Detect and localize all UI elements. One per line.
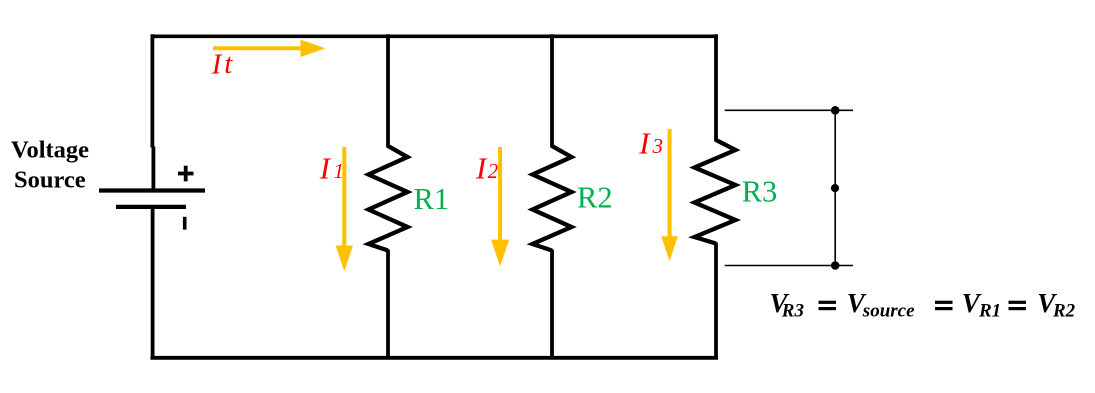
- svg-text:I: I: [475, 151, 488, 186]
- wire bottom rail: [151, 356, 719, 360]
- svg-text:R1: R1: [414, 182, 450, 216]
- svg-text:3: 3: [652, 134, 664, 158]
- wire R3 bottom lead: [714, 243, 718, 360]
- label current I3: [638, 125, 663, 160]
- label resistor R2 value: [577, 181, 613, 215]
- node middle junction dot: [831, 184, 839, 192]
- wire top rail: [151, 34, 719, 38]
- svg-text:R2: R2: [577, 181, 613, 215]
- svg-text:Voltage: Voltage: [11, 136, 89, 163]
- label Voltage Source: [11, 136, 89, 193]
- wire voltmeter top horizontal thin line: [725, 109, 853, 111]
- current arrow I1 (downward): [336, 147, 353, 271]
- wire left rail upper segment: [152, 34, 153, 190]
- svg-text:I: I: [211, 48, 223, 80]
- wire R3 top lead (right rail): [714, 34, 718, 141]
- svg-text:t: t: [224, 48, 233, 80]
- battery plus polarity symbol: [178, 166, 194, 182]
- svg-text:Source: Source: [14, 167, 86, 194]
- current arrow It (total current, rightward): [213, 40, 326, 57]
- svg-text:I: I: [638, 125, 651, 160]
- wire voltmeter bottom horizontal thin line: [725, 265, 853, 267]
- label resistor R1 value: [414, 182, 450, 216]
- resistor R1 zigzag: [369, 146, 408, 251]
- node top junction dot: [831, 106, 840, 115]
- equation VR3 = Vsource = VR1 = VR2: [770, 288, 1076, 322]
- wire R2 top lead: [550, 34, 554, 147]
- wire R1 top lead: [386, 34, 390, 147]
- node bottom junction dot: [831, 261, 840, 270]
- svg-text:source: source: [862, 301, 915, 322]
- resistor R3 zigzag: [695, 140, 736, 244]
- label resistor R3 value: [742, 175, 778, 209]
- label current I2: [475, 151, 499, 186]
- wire voltmeter vertical thin line: [834, 110, 836, 265]
- wire R2 bottom lead: [550, 250, 554, 360]
- label current It: [211, 48, 234, 80]
- svg-text:I: I: [319, 151, 332, 186]
- resistor R2 zigzag: [533, 146, 572, 251]
- svg-text:R1: R1: [978, 301, 1001, 322]
- wire left rail lower segment: [151, 207, 155, 359]
- svg-text:R3: R3: [742, 175, 778, 209]
- battery V1 voltage source: bottom plate: [116, 205, 186, 209]
- battery minus polarity symbol (vertical tick): [183, 217, 187, 230]
- svg-text:R2: R2: [1052, 301, 1076, 322]
- svg-text:R3: R3: [781, 301, 804, 322]
- svg-text:1: 1: [334, 159, 345, 183]
- svg-text:2: 2: [488, 159, 499, 183]
- current arrow I3 (downward): [661, 129, 678, 261]
- current arrow I2 (downward): [491, 147, 509, 266]
- wire R1 bottom lead: [386, 250, 390, 360]
- label current I1: [319, 151, 344, 186]
- battery V1 voltage source: top plate: [99, 188, 205, 192]
